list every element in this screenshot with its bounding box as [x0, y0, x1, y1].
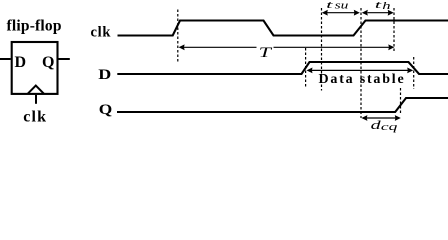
- wire D input: [0, 58, 11, 60]
- svg-text:h: h: [382, 1, 390, 12]
- node D transition dashed line: [305, 48, 307, 87]
- svg-text:Q: Q: [42, 54, 54, 71]
- svg-text:Data stable: Data stable: [319, 72, 404, 87]
- svg-text:flip-flop: flip-flop: [7, 18, 62, 35]
- node D fall dashed line: [413, 57, 415, 89]
- svg-text:cq: cq: [381, 122, 398, 133]
- clock edge triangle: [28, 86, 45, 94]
- wire clk stem: [35, 95, 37, 104]
- d_cq arrow: [361, 115, 400, 121]
- t_h label: [375, 0, 391, 12]
- node hold end dashed line: [393, 8, 395, 53]
- flip-flop U1 box: [12, 42, 58, 94]
- node setup start dashed line: [321, 8, 323, 91]
- data stable arrow: [307, 68, 414, 74]
- svg-text:su: su: [335, 1, 349, 12]
- wire clk waveform: [118, 21, 448, 36]
- t_su arrow: [322, 10, 360, 16]
- svg-text:D: D: [98, 67, 111, 83]
- node Q transition dashed line: [400, 88, 402, 115]
- node clk rising edge 1 dashed line: [177, 10, 179, 64]
- d_cq label: [371, 118, 398, 133]
- t_su label: [326, 0, 348, 12]
- wire D waveform: [117, 62, 448, 74]
- wire Q output: [58, 58, 69, 60]
- T period arrow: [179, 44, 395, 50]
- svg-text:clk: clk: [23, 109, 46, 126]
- svg-text:clk: clk: [91, 25, 112, 41]
- wire Q waveform: [117, 98, 448, 112]
- svg-text:Q: Q: [99, 102, 113, 118]
- svg-text:D: D: [15, 54, 27, 71]
- node clk rising edge 2 dashed line: [360, 8, 362, 118]
- t_h arrow: [362, 10, 394, 16]
